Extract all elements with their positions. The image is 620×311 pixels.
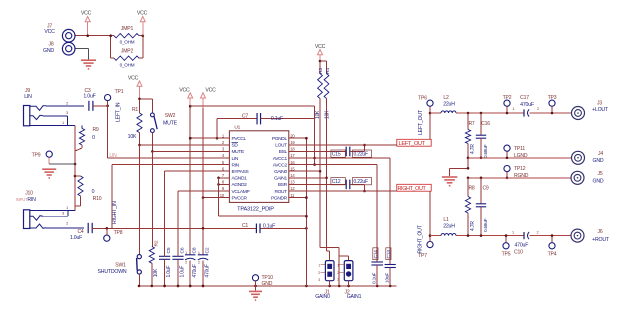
svg-text:10K: 10K bbox=[153, 268, 159, 277]
svg-text:GAIN1: GAIN1 bbox=[347, 294, 362, 300]
svg-text:0.22uF: 0.22uF bbox=[354, 179, 369, 185]
svg-text:C2: C2 bbox=[204, 247, 210, 253]
svg-text:C8: C8 bbox=[192, 247, 198, 253]
svg-text:R3: R3 bbox=[318, 68, 324, 74]
svg-text:470uF: 470uF bbox=[205, 264, 211, 277]
svg-text:SW2: SW2 bbox=[165, 113, 176, 119]
svg-text:VCC: VCC bbox=[81, 11, 92, 17]
svg-text:C13: C13 bbox=[386, 250, 392, 259]
svg-text:SD: SD bbox=[232, 143, 239, 149]
svg-text:U1: U1 bbox=[234, 125, 240, 131]
svg-text:4.7R: 4.7R bbox=[470, 221, 476, 231]
svg-text:ROUT: ROUT bbox=[274, 189, 287, 195]
svg-text:1.0uF: 1.0uF bbox=[70, 235, 82, 241]
svg-text:TP5: TP5 bbox=[502, 251, 511, 257]
svg-text:BYPASS: BYPASS bbox=[232, 169, 250, 175]
svg-text:TP9: TP9 bbox=[32, 152, 41, 158]
svg-text:TP2: TP2 bbox=[503, 95, 512, 101]
svg-text:GND: GND bbox=[593, 158, 604, 164]
svg-text:R2: R2 bbox=[154, 240, 160, 246]
svg-text:2: 2 bbox=[537, 107, 539, 111]
svg-text:0.68uF: 0.68uF bbox=[483, 218, 488, 232]
svg-text:3: 3 bbox=[318, 278, 320, 282]
svg-text:GND: GND bbox=[262, 281, 273, 287]
svg-text:0: 0 bbox=[92, 135, 95, 141]
svg-text:R8: R8 bbox=[468, 185, 474, 191]
svg-text:LIN: LIN bbox=[24, 94, 32, 100]
svg-text:TP4: TP4 bbox=[548, 251, 557, 257]
svg-text:GND: GND bbox=[593, 179, 604, 185]
svg-text:2: 2 bbox=[537, 230, 539, 234]
svg-text:22uH: 22uH bbox=[443, 223, 455, 229]
svg-text:22uH: 22uH bbox=[443, 101, 455, 107]
svg-text:L1: L1 bbox=[443, 217, 449, 223]
svg-text:R9: R9 bbox=[92, 127, 98, 133]
svg-text:L2: L2 bbox=[443, 95, 449, 101]
svg-text:RIGHT_IN: RIGHT_IN bbox=[112, 201, 118, 224]
svg-text:1: 1 bbox=[512, 230, 514, 234]
svg-text:1: 1 bbox=[318, 263, 320, 267]
svg-text:10K: 10K bbox=[325, 110, 331, 119]
svg-text:AGND1: AGND1 bbox=[232, 176, 248, 182]
svg-text:LOUT: LOUT bbox=[275, 143, 287, 149]
svg-text:2: 2 bbox=[198, 261, 200, 265]
svg-text:0.22uF: 0.22uF bbox=[354, 152, 369, 158]
svg-text:JMP1: JMP1 bbox=[121, 26, 134, 32]
svg-text:TP3: TP3 bbox=[548, 95, 557, 101]
svg-text:AGND2: AGND2 bbox=[232, 182, 248, 188]
svg-text:AVCC2: AVCC2 bbox=[273, 162, 288, 168]
svg-text:R1: R1 bbox=[132, 107, 138, 113]
svg-text:LGND: LGND bbox=[514, 153, 528, 159]
svg-text:TP6: TP6 bbox=[418, 96, 427, 102]
svg-text:C5: C5 bbox=[166, 247, 172, 253]
svg-text:C16: C16 bbox=[481, 121, 490, 127]
svg-text:0.68uF: 0.68uF bbox=[483, 144, 488, 158]
svg-text:LEFT_OUT: LEFT_OUT bbox=[399, 141, 426, 147]
svg-text:R7: R7 bbox=[468, 121, 474, 127]
svg-text:LEFT_OUT: LEFT_OUT bbox=[418, 109, 424, 135]
svg-text:JMP2: JMP2 bbox=[121, 48, 134, 54]
svg-text:R4: R4 bbox=[325, 68, 331, 74]
svg-text:3: 3 bbox=[337, 278, 339, 282]
svg-text:470uF: 470uF bbox=[192, 264, 198, 277]
svg-text:VCC: VCC bbox=[205, 87, 216, 93]
svg-text:GAIN1: GAIN1 bbox=[274, 176, 287, 182]
svg-text:J8: J8 bbox=[49, 42, 54, 48]
svg-text:BSR: BSR bbox=[278, 182, 288, 188]
svg-text:+LOUT: +LOUT bbox=[592, 107, 609, 113]
svg-text:VCC: VCC bbox=[44, 29, 55, 35]
svg-text:1.0uF: 1.0uF bbox=[83, 94, 95, 100]
svg-text:RIN: RIN bbox=[27, 197, 36, 203]
svg-text:C9: C9 bbox=[482, 185, 488, 191]
svg-text:10uF: 10uF bbox=[385, 273, 391, 283]
svg-text:J10: J10 bbox=[25, 191, 33, 197]
svg-text:0.1uF: 0.1uF bbox=[271, 116, 283, 122]
svg-text:0.1uF: 0.1uF bbox=[371, 272, 377, 284]
svg-text:J3: J3 bbox=[597, 100, 602, 106]
svg-text:VCLAMP: VCLAMP bbox=[232, 189, 250, 195]
svg-text:2: 2 bbox=[318, 271, 320, 275]
svg-text:RIGHT_OUT: RIGHT_OUT bbox=[418, 224, 424, 253]
svg-text:GND: GND bbox=[43, 48, 54, 54]
svg-text:LIN: LIN bbox=[232, 156, 239, 162]
svg-text:R10: R10 bbox=[93, 196, 102, 202]
svg-text:RIN: RIN bbox=[232, 162, 240, 168]
svg-text:0: 0 bbox=[92, 189, 95, 195]
svg-text:PVCCL: PVCCL bbox=[232, 136, 247, 142]
svg-text:C10: C10 bbox=[514, 249, 523, 255]
svg-text:TP8: TP8 bbox=[114, 230, 123, 236]
svg-text:PGNDR: PGNDR bbox=[271, 195, 288, 201]
svg-text:C15: C15 bbox=[332, 152, 341, 158]
svg-text:2: 2 bbox=[337, 271, 339, 275]
svg-text:0_OHM: 0_OHM bbox=[120, 40, 135, 45]
svg-text:0_OHM: 0_OHM bbox=[120, 63, 135, 68]
svg-text:SW1: SW1 bbox=[115, 263, 126, 269]
svg-text:C12: C12 bbox=[332, 179, 341, 185]
svg-text:1: 1 bbox=[513, 107, 515, 111]
svg-text:4.7R: 4.7R bbox=[470, 144, 476, 154]
svg-text:0.1uF: 0.1uF bbox=[263, 224, 275, 230]
svg-text:1: 1 bbox=[337, 263, 339, 267]
svg-text:470uF: 470uF bbox=[515, 242, 529, 248]
svg-text:VCC: VCC bbox=[179, 87, 190, 93]
svg-text:SHUTDOWN: SHUTDOWN bbox=[98, 269, 127, 275]
svg-text:C14: C14 bbox=[373, 250, 379, 259]
svg-text:470uF: 470uF bbox=[520, 102, 534, 108]
svg-text:C17: C17 bbox=[520, 95, 529, 101]
svg-text:J6: J6 bbox=[598, 229, 603, 235]
svg-text:LEFT_IN: LEFT_IN bbox=[116, 102, 122, 122]
svg-text:MUTE: MUTE bbox=[163, 120, 178, 126]
svg-text:+ROUT: +ROUT bbox=[592, 237, 610, 243]
svg-text:TP1: TP1 bbox=[115, 89, 124, 95]
svg-text:TP11: TP11 bbox=[514, 146, 525, 152]
svg-text:1: 1 bbox=[198, 251, 200, 255]
svg-text:RIGHT_OUT: RIGHT_OUT bbox=[398, 186, 427, 192]
svg-text:1: 1 bbox=[185, 251, 187, 255]
svg-text:TP12: TP12 bbox=[514, 166, 526, 172]
svg-text:PVCCR: PVCCR bbox=[232, 195, 248, 201]
svg-text:BSL: BSL bbox=[279, 149, 288, 155]
svg-text:MUTE: MUTE bbox=[232, 149, 245, 155]
svg-text:J5: J5 bbox=[598, 171, 603, 177]
svg-text:1.0uF: 1.0uF bbox=[180, 266, 186, 278]
svg-text:VCC: VCC bbox=[128, 75, 139, 81]
svg-text:VCC: VCC bbox=[137, 11, 148, 17]
svg-text:GAIN0: GAIN0 bbox=[315, 294, 330, 300]
svg-text:1.0uF: 1.0uF bbox=[166, 266, 172, 278]
svg-text:AVCC1: AVCC1 bbox=[273, 156, 288, 162]
svg-text:INPUT: INPUT bbox=[16, 197, 28, 202]
svg-text:TPA3122_PDIP: TPA3122_PDIP bbox=[237, 207, 274, 213]
svg-text:C1: C1 bbox=[242, 223, 249, 229]
svg-text:J4: J4 bbox=[598, 151, 603, 157]
svg-text:10K: 10K bbox=[128, 134, 137, 140]
svg-text:2: 2 bbox=[185, 261, 187, 265]
svg-text:GAIN0: GAIN0 bbox=[274, 169, 287, 175]
svg-text:PGNDL: PGNDL bbox=[272, 136, 288, 142]
